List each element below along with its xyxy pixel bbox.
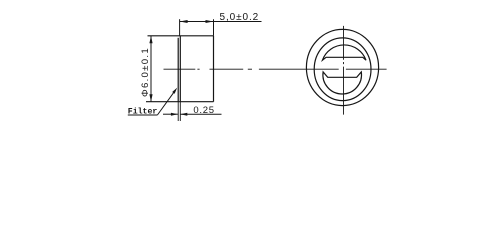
dimension 5.0 arrow left [180, 20, 188, 23]
outer rim circle (back view) [306, 29, 378, 105]
dimension line 0.25 right part [180, 113, 221, 115]
vertical centerline segment 1 [343, 26, 345, 60]
Filter label underline [128, 114, 158, 116]
Filter leader arrowhead [172, 88, 177, 94]
horizontal centerline short dash 2 [248, 68, 252, 70]
extension line left for 5.0 dimension [179, 19, 181, 36]
dimension 5.0 arrow right [206, 20, 214, 23]
dimension phi6.0 arrow down [149, 94, 152, 102]
svg-text:0.25: 0.25 [193, 105, 214, 116]
horizontal centerline segment 1 [164, 68, 196, 70]
capsule body top edge (side view) [148, 35, 214, 37]
Filter leader line [157, 90, 175, 115]
horizontal centerline segment 4 [346, 68, 387, 70]
capsule body bottom edge (side view) [146, 101, 214, 103]
dimension line 5.0 (horizontal) [180, 21, 262, 23]
extension line below body edge for 0.25 dimension [179, 102, 181, 121]
capsule body right edge (side view) [213, 36, 215, 102]
horizontal centerline short dash 1 [197, 68, 199, 70]
svg-text:Φ6.0±0.1: Φ6.0±0.1 [140, 47, 151, 97]
dimension line phi6.0 (vertical) [150, 36, 152, 102]
dimension line 0.25 left part [163, 113, 178, 115]
vertical centerline segment 2 [343, 67, 345, 115]
extension line right for 5.0 dimension [213, 19, 215, 36]
vertical centerline short dash [343, 62, 345, 64]
capsule body left edge (side view) [179, 36, 181, 102]
upper solder pad (crescent) [322, 45, 366, 60]
filter layer line on front face [177, 38, 179, 102]
horizontal centerline segment 3 [259, 68, 339, 70]
middle crimp circle (back view) [314, 38, 371, 101]
dimension phi6.0 arrow up [149, 36, 152, 44]
svg-text:Filter: Filter [128, 107, 158, 117]
dimension 0.25 arrow pointing right [171, 113, 178, 116]
extension line below filter for 0.25 dimension [177, 102, 179, 121]
dimension 0.25 arrow pointing left [180, 113, 187, 116]
lower solder pad (crescent) [323, 72, 362, 94]
svg-text:5,0±0.2: 5,0±0.2 [220, 12, 260, 23]
horizontal centerline segment 2 [210, 68, 244, 70]
